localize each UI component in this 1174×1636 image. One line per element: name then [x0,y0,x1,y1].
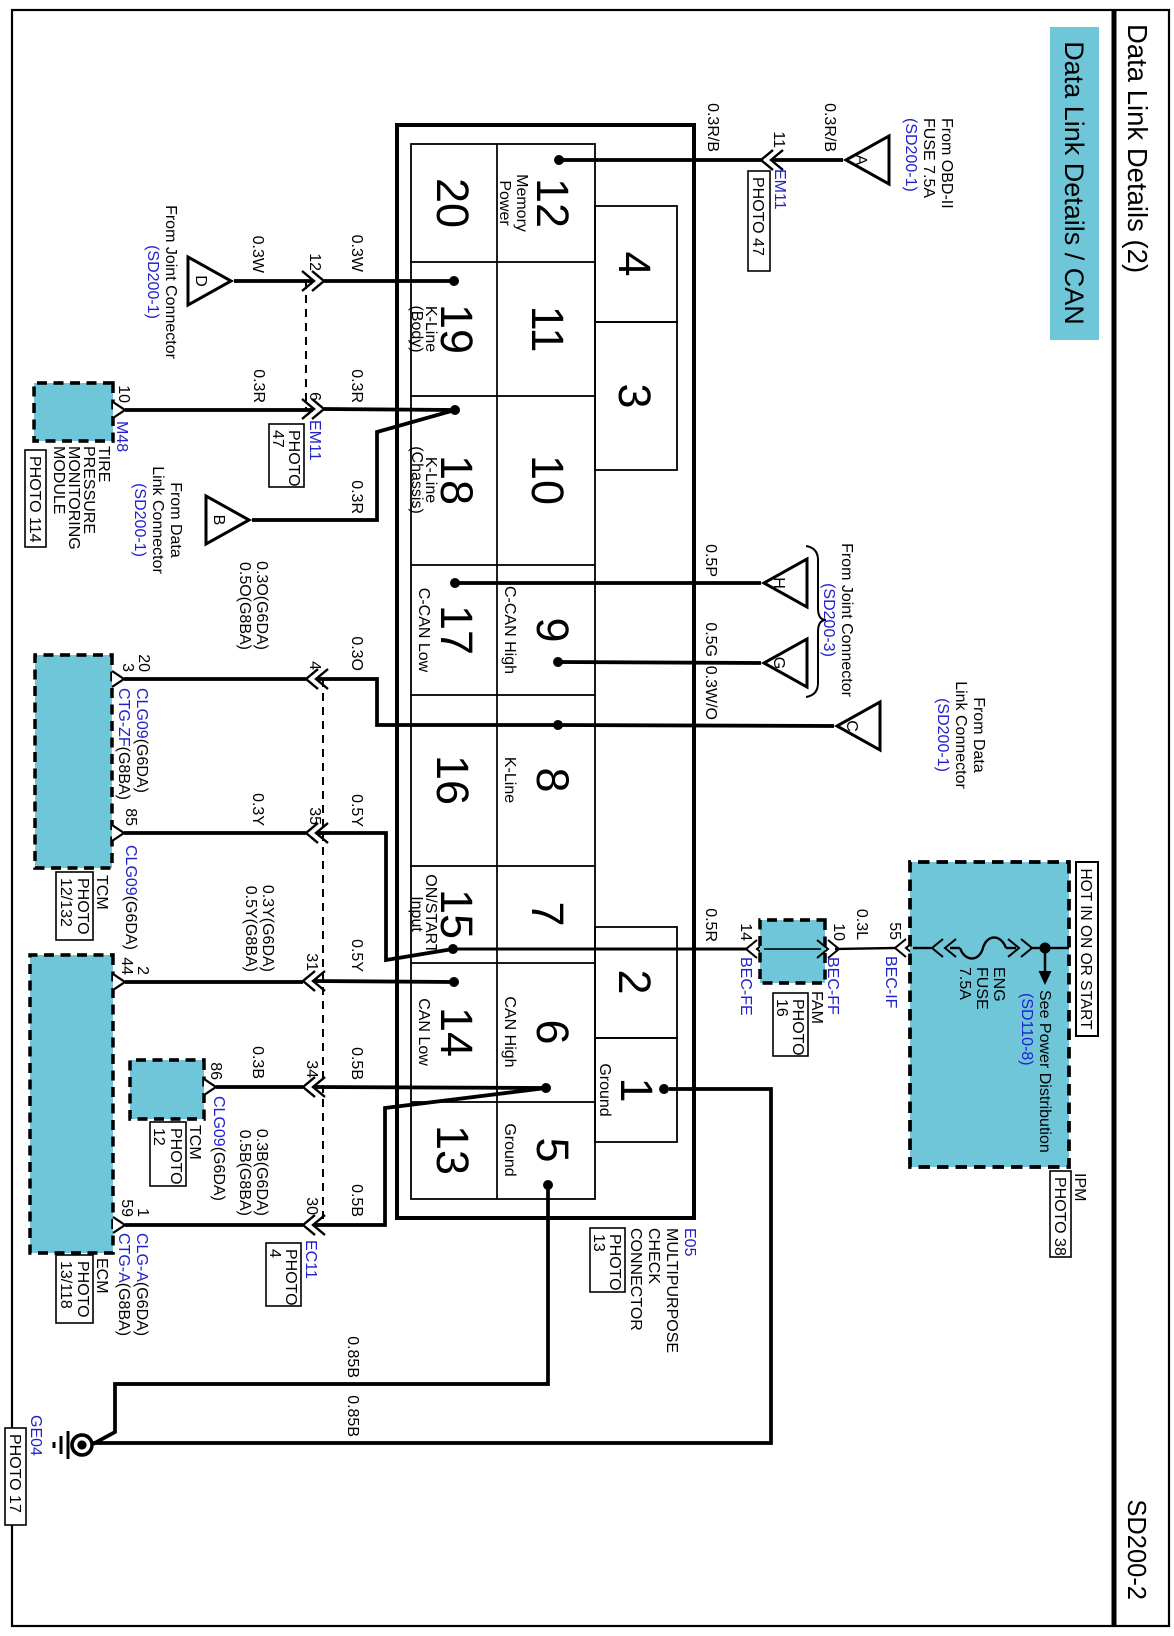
svg-text:C-CAN High: C-CAN High [501,586,518,674]
wire 0.5Y to pin15 [317,833,453,960]
svg-text:13/118: 13/118 [57,1261,74,1309]
triangle D (from joint connector) [188,257,231,305]
wire 0.5P H to pin17 [455,581,761,585]
wire 0.3R M48 to EM11 [125,408,313,412]
wire 0.3W EM11 to pin19 [324,279,454,283]
svg-text:PRESSURE: PRESSURE [80,446,97,534]
svg-text:CONNECTOR: CONNECTOR [627,1228,644,1331]
module M48 TPMS box [34,383,113,441]
wire 0.3B ECM59 to EC11 chevron [125,1223,303,1227]
svg-text:CLG09(G6DA): CLG09(G6DA) [133,688,150,793]
svg-text:SD200-2: SD200-2 [1122,1499,1150,1600]
svg-text:PHOTO: PHOTO [74,878,91,935]
wire 0.3O TCM to CLG09 chevron [124,677,306,681]
wire 0.5B to pin6 junction [314,1088,546,1225]
svg-text:10: 10 [830,923,847,941]
node pin1 [659,1084,669,1094]
svg-text:FUSE: FUSE [973,967,990,1010]
svg-text:K-Line: K-Line [501,757,518,803]
svg-text:(SD200-1): (SD200-1) [131,483,148,557]
pin notch ECM 1/59 [113,1217,125,1233]
svg-text:0.3B(G6DA): 0.3B(G6DA) [253,1129,270,1216]
svg-text:CLG09(G6DA): CLG09(G6DA) [122,845,139,950]
svg-text:44: 44 [118,957,135,975]
svg-text:14: 14 [431,1007,482,1057]
svg-text:BEC-FF: BEC-FF [824,957,841,1015]
subtitle box: Data Link Details / CAN [1050,27,1099,340]
label HOT IN ON OR START box [1076,862,1098,1036]
svg-text:CTG-ZF(G8BA): CTG-ZF(G8BA) [115,688,132,800]
svg-text:35: 35 [306,807,323,825]
svg-text:A: A [852,155,869,166]
svg-text:Ground: Ground [501,1123,518,1176]
svg-text:Ground: Ground [596,1063,613,1116]
svg-text:0.3L: 0.3L [853,909,870,940]
svg-text:From Data: From Data [167,482,184,558]
svg-text:(SD200-1): (SD200-1) [902,118,919,192]
IPM upper double chevron [1008,939,1032,957]
node pin14 [449,977,459,987]
svg-text:13: 13 [590,1234,607,1252]
node pin9 [553,657,563,667]
svg-text:MULTIPURPOSE: MULTIPURPOSE [663,1228,680,1353]
label PHOTO 4 box [266,1243,301,1306]
svg-text:85: 85 [122,808,139,826]
wire into IPM [913,947,931,949]
svg-text:0.5P: 0.5P [702,544,719,577]
svg-text:2: 2 [134,966,151,975]
node pin17 [450,578,460,588]
wire 0.85B pin5 branch [93,1185,548,1444]
FAM internal wire [764,948,821,950]
pin notch TCM 86 [204,1079,216,1095]
svg-text:GE04: GE04 [27,1415,44,1456]
svg-text:86: 86 [207,1062,224,1080]
connector BEC-IF chevron [895,939,917,957]
svg-text:CLG-A(G6DA): CLG-A(G6DA) [133,1233,150,1336]
wire 0.3R/B EM11 to pin12 [559,158,761,162]
connector CLG09 pin 31 chevron [303,971,325,991]
svg-text:0.3O: 0.3O [348,636,365,671]
svg-text:0.3W: 0.3W [249,236,266,274]
svg-text:TCM: TCM [186,1125,203,1160]
label PHOTO 17 box [5,1428,26,1525]
svg-text:0.5B: 0.5B [348,1184,365,1217]
svg-text:C-CAN Low: C-CAN Low [415,588,432,673]
triangle H (joint connector) [764,559,807,607]
svg-text:16: 16 [427,755,478,805]
svg-text:12/132: 12/132 [57,878,74,927]
svg-text:0.5Y(G8BA): 0.5Y(G8BA) [242,886,259,972]
svg-text:PHOTO: PHOTO [167,1128,184,1185]
svg-text:12: 12 [150,1128,167,1146]
svg-text:0.3R/B: 0.3R/B [821,103,838,152]
node pin6 [541,1083,551,1093]
module TCM (photo 12) box [130,1060,204,1119]
junction dot power [1040,943,1051,954]
svg-text:Link Connector: Link Connector [952,681,969,789]
svg-text:0.3Y: 0.3Y [249,793,266,826]
node pin8 [553,720,563,730]
connector BEC-FF chevron [817,940,839,958]
module IPM box [910,862,1069,1167]
svg-text:BEC-IF: BEC-IF [882,956,899,1009]
svg-text:TIRE: TIRE [95,446,112,482]
connector EM11 pin 11 chevron [761,150,783,170]
svg-text:0.3R: 0.3R [348,369,365,403]
node pin18 [450,405,460,415]
svg-text:D: D [192,275,209,287]
svg-text:(Chassis): (Chassis) [408,446,425,514]
svg-text:Data Link Details / CAN: Data Link Details / CAN [1059,41,1089,325]
svg-text:(Body): (Body) [408,305,425,352]
wire 0.85B pin1 to ground [93,1089,771,1443]
svg-text:14: 14 [737,923,754,941]
svg-text:4: 4 [609,251,660,276]
svg-text:PHOTO 47: PHOTO 47 [749,177,766,256]
svg-text:12: 12 [527,178,578,228]
connector BEC-FE chevron [746,940,768,958]
svg-text:10: 10 [115,385,132,403]
svg-text:9: 9 [527,617,578,642]
svg-text:PHOTO: PHOTO [282,1249,299,1306]
connector CLG09 pin 34 chevron [303,1077,325,1097]
svg-text:20: 20 [135,654,152,672]
wire 0.3O to pin8 [317,679,558,725]
svg-text:0.3R: 0.3R [348,480,365,514]
label PHOTO 47 box (2) [269,424,304,487]
svg-text:Data Link Details (2): Data Link Details (2) [1122,24,1153,273]
svg-text:1: 1 [134,1208,151,1217]
svg-text:C: C [843,720,860,732]
wire 0.3Y ECM44 to chevron [125,980,303,984]
header separator line [1112,10,1117,1626]
module FAM box [760,920,825,983]
svg-text:MODULE: MODULE [50,446,67,514]
svg-text:0.85B: 0.85B [344,1395,361,1437]
svg-text:FAM: FAM [808,991,825,1024]
svg-text:7.5A: 7.5A [956,967,973,1000]
wire 0.3W D to EM11 [234,279,313,283]
svg-text:3: 3 [609,383,660,408]
svg-text:Link Connector: Link Connector [149,466,166,574]
svg-text:H: H [770,577,787,589]
pin notch TCM 20/3 [112,671,124,687]
svg-text:2: 2 [609,969,660,994]
svg-text:4: 4 [306,661,323,670]
svg-text:ECM: ECM [93,1258,110,1294]
svg-text:CAN High: CAN High [501,996,518,1067]
svg-text:From Data: From Data [970,697,987,773]
svg-text:PHOTO: PHOTO [606,1234,623,1291]
svg-text:0.85B: 0.85B [344,1336,361,1378]
svg-text:CTG-A(G8BA): CTG-A(G8BA) [115,1233,132,1336]
svg-text:7: 7 [522,901,573,926]
svg-text:0.3O(G6DA): 0.3O(G6DA) [253,561,270,650]
svg-text:Power: Power [496,180,513,226]
svg-text:0.5G: 0.5G [702,622,719,657]
svg-text:30: 30 [303,1197,320,1215]
svg-text:CHECK: CHECK [645,1228,662,1284]
svg-text:4: 4 [266,1249,283,1258]
svg-text:ENG: ENG [990,967,1007,1002]
wire 0.3R EM11 to pin18 [324,409,455,410]
svg-text:0.5O(G8BA): 0.5O(G8BA) [236,562,253,650]
svg-text:PHOTO: PHOTO [789,999,806,1056]
node pin15 [448,944,458,954]
svg-text:3: 3 [119,663,136,672]
svg-text:HOT IN ON OR START: HOT IN ON OR START [1077,868,1094,1030]
svg-text:17: 17 [431,605,482,655]
svg-text:0.3B: 0.3B [249,1046,266,1079]
wire 0.3W/O C to pin8 [558,725,834,726]
ground GE04 symbol [72,1435,92,1455]
svg-text:From OBD-II: From OBD-II [938,118,955,209]
svg-text:(SD200-3): (SD200-3) [820,583,837,657]
svg-text:EM11: EM11 [771,169,788,210]
svg-text:MONITORING: MONITORING [65,446,82,550]
wire 0.3R B to pin18 [252,410,455,520]
label PHOTO 13/118 box [56,1255,93,1323]
svg-text:0.5B: 0.5B [348,1047,365,1080]
wire 0.5Y to pin14 [314,981,454,982]
svg-text:EM11: EM11 [306,420,323,461]
svg-text:0.3W/O: 0.3W/O [702,666,719,720]
svg-text:E05: E05 [681,1228,698,1257]
svg-text:M48: M48 [113,421,130,452]
wire 0.3Y TCM85 to chevron [124,831,306,835]
svg-text:Memory: Memory [513,174,530,232]
wire 0.5R pin15 to BEC-FE [453,948,748,951]
svg-text:(SD110-8): (SD110-8) [1018,993,1035,1066]
node pin5 [543,1180,553,1190]
svg-text:PHOTO 114: PHOTO 114 [26,456,43,543]
svg-text:CAN Low: CAN Low [415,998,432,1066]
node pin12 [554,155,564,165]
wire 0.3R/B A to EM11 [772,158,843,162]
triangle A (from OBD-II fuse) [846,136,889,184]
wire 0.3L BEC-FF to BEC-IF [835,948,895,949]
connector EM11 pin 6 chevron [302,399,324,419]
fuse ENG FUSE 7.5A [950,947,960,949]
svg-text:IPM: IPM [1071,1173,1088,1201]
pin notch ECM 2/44 [113,974,125,990]
node pin19 [449,276,459,286]
svg-text:55: 55 [886,922,903,940]
triangle G (joint connector) [764,639,807,687]
label PHOTO 47 box [748,171,770,271]
CLG09/EC11 boundary dashed line [322,679,324,1225]
svg-text:B: B [210,515,227,526]
svg-text:EC11: EC11 [302,1240,319,1279]
svg-text:Input: Input [408,896,425,932]
EM11 boundary dashed line [305,281,307,409]
svg-text:12: 12 [306,253,323,271]
svg-text:PHOTO: PHOTO [74,1261,91,1318]
svg-text:From Joint Connector: From Joint Connector [162,205,179,360]
svg-text:8: 8 [527,767,578,792]
module ECM box [30,955,113,1253]
svg-text:(SD200-1): (SD200-1) [934,698,951,772]
connector E05 outline [397,125,694,1218]
svg-text:13: 13 [427,1125,478,1175]
pin notch M48 pin10 [113,402,125,418]
connector CLG09 pin 35 chevron [306,823,328,843]
wire 0.3B TCM86 to chevron [216,1085,303,1089]
E05 pin grid [411,144,677,1199]
label PHOTO 12/132 box [56,872,93,940]
svg-text:0.5Y: 0.5Y [348,794,365,827]
svg-text:FUSE 7.5A: FUSE 7.5A [920,118,937,198]
pin notch TCM 85 [112,825,124,841]
svg-text:0.5Y: 0.5Y [348,939,365,972]
svg-text:10: 10 [522,455,573,505]
svg-text:6: 6 [306,392,323,401]
svg-text:TCM: TCM [93,875,110,910]
svg-text:0.3Y(G6DA): 0.3Y(G6DA) [259,885,276,972]
module TCM box [35,655,112,868]
svg-text:CLG09(G6DA): CLG09(G6DA) [210,1096,227,1201]
svg-text:See Power Distribution: See Power Distribution [1036,990,1053,1153]
svg-text:0.3R: 0.3R [250,369,267,403]
svg-text:G: G [770,657,787,669]
label PHOTO 12 box [150,1122,186,1186]
IPM lower double chevron [932,939,956,957]
svg-text:PHOTO 38: PHOTO 38 [1051,1177,1068,1256]
triangle C (data link connector) [837,702,880,750]
wire 0.5G G to pin9 [558,662,761,663]
arrow to See Power Distribution [1044,948,1047,972]
svg-text:(SD200-1): (SD200-1) [144,245,161,319]
svg-text:59: 59 [118,1199,135,1217]
svg-text:1: 1 [611,1077,662,1102]
svg-text:BEC-FE: BEC-FE [737,957,754,1016]
svg-text:0.5B(G8BA): 0.5B(G8BA) [236,1130,253,1216]
triangle B (from data link connector) [206,496,249,544]
svg-text:0.5R: 0.5R [702,908,719,942]
svg-text:34: 34 [303,1060,320,1078]
svg-text:11: 11 [770,131,787,148]
svg-text:16: 16 [773,999,790,1017]
wire fuse to HOT node [1030,947,1069,949]
label PHOTO 114 box [25,450,46,547]
connector EC11 pin 30 chevron [303,1215,325,1235]
svg-text:20: 20 [427,178,478,228]
svg-text:0.3W: 0.3W [348,235,365,273]
svg-text:PHOTO: PHOTO [285,430,302,487]
wire 0.5B to pin6 [314,1087,546,1088]
connector CLG09 pin 4 chevron [306,669,328,689]
svg-text:11: 11 [522,306,573,353]
svg-text:PHOTO 17: PHOTO 17 [6,1434,23,1513]
svg-text:47: 47 [269,430,286,448]
svg-text:31: 31 [303,953,320,971]
brace grouping H and G [806,546,826,697]
svg-text:6: 6 [527,1019,578,1044]
connector EM11 pin 12 chevron [302,271,324,291]
svg-text:0.3R/B: 0.3R/B [704,103,721,152]
svg-text:5: 5 [527,1137,578,1162]
svg-text:From Joint Connector: From Joint Connector [838,543,855,698]
